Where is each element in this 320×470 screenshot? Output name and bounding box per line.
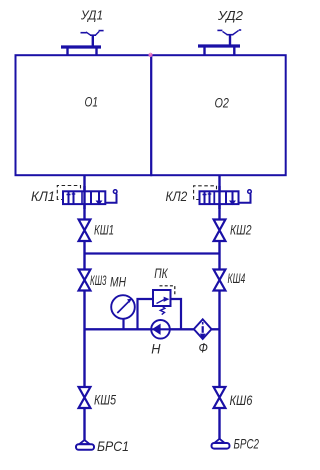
svg-text:МН: МН — [110, 274, 127, 290]
svg-text:О1: О1 — [85, 94, 99, 110]
ball valve KSh1 — [79, 220, 91, 242]
wire cross connector — [85, 252, 220, 254]
junction dot (magenta) — [148, 53, 152, 57]
wire KSh5 to BRS1 — [83, 409, 85, 442]
valve KL1 — [57, 186, 117, 210]
ball valve KSh4 — [214, 270, 226, 291]
ball valve KSh5 — [79, 387, 91, 408]
wire pump main line — [85, 328, 220, 330]
svg-text:БРС1: БРС1 — [97, 438, 129, 454]
tank O1 — [16, 55, 152, 175]
coupling BRS2 — [212, 439, 230, 449]
relief valve PK — [153, 286, 175, 315]
ball valve KSh3 — [79, 270, 91, 291]
label F — [199, 340, 208, 356]
label O1 — [85, 94, 99, 110]
wire tank1 to KL1 and down to KSh1 — [83, 176, 85, 219]
svg-text:КШ2: КШ2 — [230, 222, 252, 238]
label UD2 — [217, 8, 244, 23]
label UD1 — [80, 8, 103, 23]
coupling BRS1 — [76, 440, 94, 450]
label KSh5 — [94, 392, 116, 408]
wire KSh4 down to KSh6 — [218, 291, 220, 388]
svg-text:КЛ2: КЛ2 — [166, 188, 188, 204]
label N — [151, 341, 161, 357]
label KL2 — [166, 188, 188, 204]
ball valve KSh6 — [214, 387, 226, 408]
svg-text:КШ4: КШ4 — [228, 270, 246, 286]
svg-text:УД1: УД1 — [80, 8, 103, 23]
breather UD1 — [61, 31, 104, 55]
label KL1 — [31, 188, 55, 204]
label KSh1 — [94, 222, 114, 238]
label O2 — [215, 95, 230, 111]
svg-text:КШ6: КШ6 — [230, 392, 253, 408]
pump N — [85, 320, 220, 339]
label KSh6 — [230, 392, 253, 408]
relief valve PK loop wires — [138, 299, 182, 329]
label KSh2 — [230, 222, 252, 238]
svg-text:Н: Н — [151, 341, 161, 357]
wire KSh6 to BRS2 — [218, 409, 220, 440]
tank O2 — [151, 55, 286, 175]
label KSh3 — [90, 272, 107, 288]
svg-text:КЛ1: КЛ1 — [31, 188, 55, 204]
svg-text:БРС2: БРС2 — [234, 436, 260, 452]
label PK — [154, 265, 168, 281]
label KSh4 — [228, 270, 246, 286]
svg-text:О2: О2 — [215, 95, 230, 111]
svg-text:УД2: УД2 — [217, 8, 244, 23]
svg-text:КШ1: КШ1 — [94, 222, 114, 238]
wire KSh2 to junction — [218, 242, 220, 270]
svg-text:ПК: ПК — [154, 265, 168, 281]
manometer MN — [111, 295, 135, 329]
wire tank2 to KL2 and down to KSh2 — [218, 176, 220, 219]
svg-text:КШ5: КШ5 — [94, 392, 116, 408]
valve KL2 — [194, 186, 252, 209]
wire KL1 to KSh1 handled above; wire KSh1 to junction — [83, 242, 85, 270]
svg-text:Ф: Ф — [199, 340, 208, 356]
label BRS2 — [234, 436, 260, 452]
label MN — [110, 274, 127, 290]
label BRS1 — [97, 438, 129, 454]
breather UD2 — [198, 30, 241, 55]
wire KSh3 down to KSh5 — [83, 291, 85, 387]
svg-text:КШ3: КШ3 — [90, 272, 107, 288]
filter F — [194, 319, 212, 339]
ball valve KSh2 — [214, 220, 226, 242]
